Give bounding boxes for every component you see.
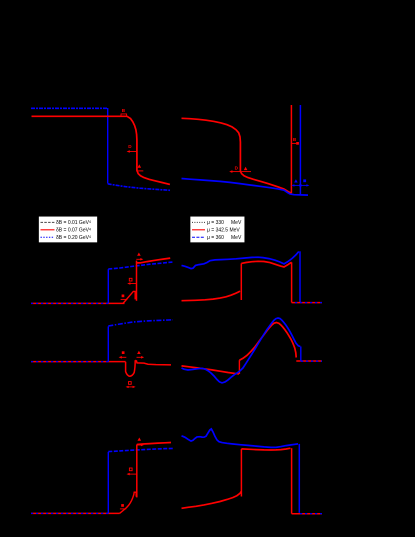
svg-text:μ = 330: μ = 330 — [207, 220, 224, 226]
svg-text:μ = 360: μ = 360 — [207, 235, 224, 241]
svg-text:MeV: MeV — [231, 220, 242, 226]
svg-text:δB = 0.07 GeV4: δB = 0.07 GeV4 — [56, 227, 91, 233]
svg-text:MeV: MeV — [231, 235, 242, 241]
svg-text:δB = 0.20 GeV4: δB = 0.20 GeV4 — [56, 235, 91, 241]
svg-text:δB = 0.01 GeV4: δB = 0.01 GeV4 — [56, 220, 91, 226]
svg-text:μ = 342.5 MeV: μ = 342.5 MeV — [207, 228, 240, 234]
